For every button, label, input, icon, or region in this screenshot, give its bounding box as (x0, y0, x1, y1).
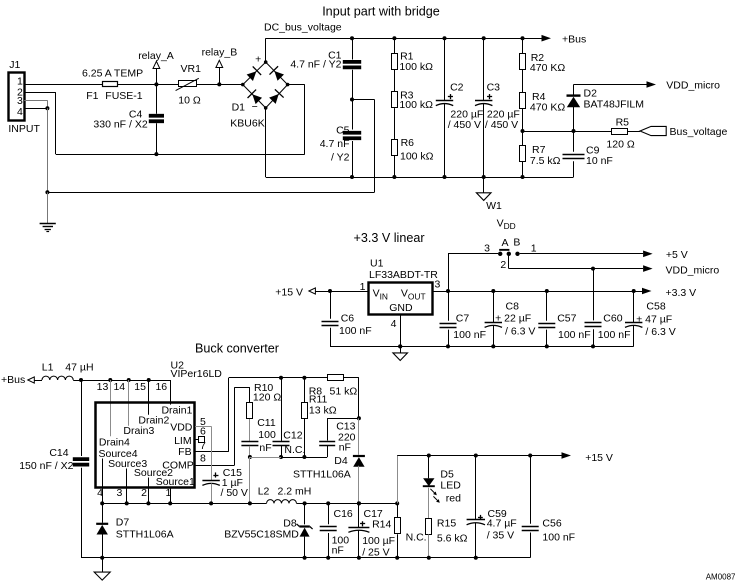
svg-text:C6: C6 (341, 312, 355, 324)
svg-text:R5: R5 (616, 116, 630, 128)
svg-text:Bus_voltage: Bus_voltage (670, 126, 728, 138)
svg-text:470 KΩ: 470 KΩ (530, 62, 565, 74)
svg-text:100 nF: 100 nF (558, 329, 591, 341)
svg-text:/ 50 V: / 50 V (221, 487, 248, 499)
svg-text:VDD_micro: VDD_micro (666, 79, 720, 91)
svg-text:+3.3 V linear: +3.3 V linear (353, 231, 424, 245)
svg-text:LF33ABDT-TR: LF33ABDT-TR (369, 269, 438, 281)
svg-text:C56: C56 (542, 518, 561, 530)
svg-text:+Bus: +Bus (1, 374, 25, 386)
svg-text:4: 4 (17, 106, 23, 118)
svg-text:/ Y2: / Y2 (331, 151, 350, 163)
svg-text:C60: C60 (603, 312, 622, 324)
svg-text:KBU6K: KBU6K (230, 118, 264, 130)
svg-text:+: + (255, 53, 261, 65)
svg-text:120 Ω: 120 Ω (606, 139, 634, 151)
svg-text:+ 47 µF: + 47 µF (636, 314, 672, 326)
svg-text:15: 15 (134, 381, 146, 393)
svg-text:C11: C11 (257, 417, 276, 429)
svg-text:N.C.: N.C. (284, 444, 305, 456)
svg-text:47 µH: 47 µH (65, 361, 93, 373)
svg-text:Drain3: Drain3 (123, 425, 154, 437)
svg-text:VIPer16LD: VIPer16LD (171, 368, 223, 380)
svg-text:/ 6.3 V: / 6.3 V (505, 325, 535, 337)
svg-text:470 KΩ: 470 KΩ (530, 102, 565, 114)
svg-text:100 nF: 100 nF (542, 532, 575, 544)
svg-text:10 nF: 10 nF (586, 155, 613, 167)
svg-text:BZV55C18SMD: BZV55C18SMD (224, 528, 299, 540)
svg-text:D1: D1 (232, 101, 246, 113)
svg-text:100: 100 (258, 429, 276, 441)
svg-text:C16: C16 (334, 508, 353, 520)
svg-text:/ 450 V: / 450 V (448, 119, 481, 131)
svg-text:1: 1 (360, 281, 366, 293)
svg-text:10 Ω: 10 Ω (178, 94, 201, 106)
svg-text:4.7 nF: 4.7 nF (320, 138, 350, 150)
svg-text:Buck converter: Buck converter (195, 342, 279, 356)
svg-text:4.7 nF / Y2: 4.7 nF / Y2 (290, 59, 341, 71)
svg-text:100 nF: 100 nF (598, 329, 631, 341)
svg-text:R15: R15 (437, 518, 456, 530)
svg-text:FB: FB (178, 446, 191, 458)
svg-text:3: 3 (17, 95, 23, 107)
svg-text:A: A (502, 237, 509, 249)
svg-text:100 kΩ: 100 kΩ (399, 61, 433, 73)
svg-text:COMP: COMP (162, 460, 194, 472)
svg-text:100 kΩ: 100 kΩ (400, 151, 434, 163)
svg-text:7: 7 (200, 440, 206, 452)
svg-text:nF: nF (339, 442, 351, 454)
svg-text:5.6 kΩ: 5.6 kΩ (437, 533, 468, 545)
svg-text:8: 8 (200, 453, 206, 465)
svg-text:120 Ω: 120 Ω (253, 392, 281, 404)
svg-text:relay_B: relay_B (202, 47, 238, 59)
svg-text:AM00874: AM00874 (706, 572, 735, 581)
svg-text:330 nF / X2: 330 nF / X2 (93, 119, 147, 131)
svg-text:4.7 µF: 4.7 µF (487, 518, 517, 530)
svg-text:R6: R6 (401, 137, 415, 149)
svg-text:F1: F1 (86, 90, 98, 102)
svg-text:C8: C8 (506, 301, 520, 313)
svg-text:2.2 mH: 2.2 mH (278, 485, 312, 497)
svg-text:L1: L1 (42, 361, 54, 373)
svg-text:/ 6.3 V: / 6.3 V (645, 326, 675, 338)
svg-text:U1: U1 (370, 258, 384, 270)
svg-text:Source1: Source1 (156, 476, 195, 488)
svg-text:Input part with bridge: Input part with bridge (322, 5, 440, 19)
svg-text:1: 1 (531, 243, 537, 255)
svg-text:/ 450 V: / 450 V (485, 119, 518, 131)
svg-text:4: 4 (97, 487, 103, 499)
svg-text:2: 2 (141, 487, 147, 499)
svg-text:/ 25 V: / 25 V (362, 546, 389, 558)
svg-text:N.C.: N.C. (406, 532, 427, 544)
svg-text:16: 16 (155, 381, 167, 393)
svg-text:D4: D4 (334, 455, 348, 467)
svg-text:VDD: VDD (170, 422, 193, 434)
svg-text:7.5 kΩ: 7.5 kΩ (530, 155, 561, 167)
svg-text:+15 V: +15 V (585, 452, 613, 464)
svg-text:STTH1L06A: STTH1L06A (116, 528, 174, 540)
svg-text:BAT48JFILM: BAT48JFILM (584, 99, 645, 111)
svg-text:C58: C58 (646, 301, 665, 313)
svg-text:VDD_micro: VDD_micro (666, 264, 720, 276)
svg-text:LED: LED (440, 479, 461, 491)
svg-text:J1: J1 (9, 59, 20, 71)
svg-text:2: 2 (500, 259, 506, 271)
svg-text:relay_A: relay_A (138, 50, 174, 62)
svg-text:6: 6 (200, 426, 206, 438)
svg-text:6.25 A TEMP: 6.25 A TEMP (82, 67, 143, 79)
svg-text:nF: nF (259, 442, 271, 454)
svg-text:INPUT: INPUT (8, 123, 40, 135)
svg-text:100 kΩ: 100 kΩ (399, 99, 433, 111)
svg-text:STTH1L06A: STTH1L06A (293, 469, 351, 481)
svg-text:D7: D7 (116, 516, 130, 528)
svg-text:13: 13 (97, 381, 109, 393)
svg-text:100 nF: 100 nF (339, 325, 372, 337)
svg-text:100 nF: 100 nF (453, 329, 486, 341)
svg-text:1: 1 (165, 487, 171, 499)
svg-text:+3.3 V: +3.3 V (666, 287, 697, 299)
svg-text:C2: C2 (450, 82, 464, 94)
svg-text:150 nF / X2: 150 nF / X2 (19, 460, 73, 472)
svg-text:C57: C57 (557, 312, 576, 324)
svg-text:C7: C7 (456, 312, 470, 324)
svg-text:DC_bus_voltage: DC_bus_voltage (264, 22, 342, 34)
svg-text:W1: W1 (486, 200, 502, 212)
svg-text:3: 3 (435, 279, 441, 291)
svg-text:B: B (513, 237, 520, 249)
svg-text:GND: GND (389, 302, 413, 314)
svg-text:C12: C12 (283, 430, 302, 442)
svg-text:Drain4: Drain4 (99, 436, 130, 448)
svg-text:+Bus: +Bus (562, 33, 586, 45)
svg-text:nF: nF (332, 545, 344, 557)
svg-text:3: 3 (484, 243, 490, 255)
svg-text:100 µF: 100 µF (362, 535, 395, 547)
svg-text:L2: L2 (258, 485, 270, 497)
svg-text:C5: C5 (336, 125, 350, 137)
svg-text:51 kΩ: 51 kΩ (330, 385, 358, 397)
svg-text:+ 22 µF: + 22 µF (495, 313, 531, 325)
svg-text:/ 35 V: / 35 V (487, 530, 514, 542)
svg-text:FUSE-1: FUSE-1 (105, 90, 143, 102)
svg-text:14: 14 (113, 381, 125, 393)
svg-text:red: red (446, 492, 461, 504)
svg-text:R14: R14 (372, 519, 391, 531)
svg-text:+5 V: +5 V (666, 249, 688, 261)
svg-text:C3: C3 (487, 82, 501, 94)
svg-text:VR1: VR1 (181, 63, 202, 75)
svg-text:+15 V: +15 V (275, 286, 303, 298)
svg-text:4: 4 (391, 318, 397, 330)
svg-text:3: 3 (116, 487, 122, 499)
svg-text:−: − (252, 101, 258, 113)
svg-text:13 kΩ: 13 kΩ (309, 404, 337, 416)
svg-text:C14: C14 (49, 447, 68, 459)
